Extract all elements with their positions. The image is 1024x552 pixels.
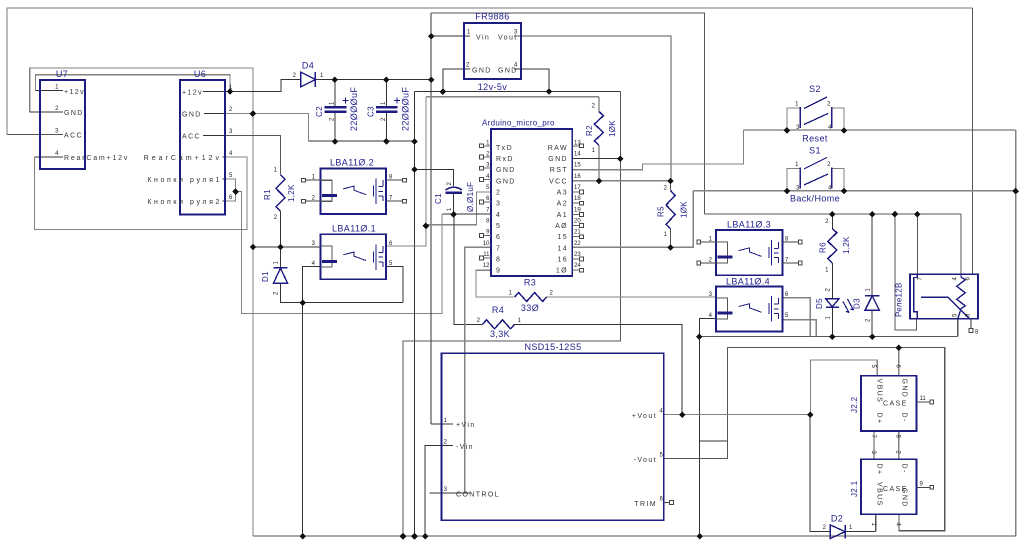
wire C1-R4 vertical [454, 214, 483, 324]
svg-text:Vout: Vout [498, 35, 518, 42]
wire U7 pin1 stub [36, 90, 63, 92]
svg-text:33Ø: 33Ø [521, 303, 539, 313]
svg-text:12: 12 [483, 263, 490, 269]
wire R4 right to +Vout [515, 324, 683, 414]
wire NSD CONTROL stub [429, 492, 470, 494]
junction R5 top on VCC line [667, 178, 674, 185]
svg-text:19: 19 [574, 207, 581, 213]
wire GND right vertical [403, 91, 620, 536]
svg-text:J2.2: J2.2 [850, 396, 859, 413]
resistor R3 [515, 293, 547, 302]
wire arduino pin14(22) to S1 [572, 191, 693, 248]
terminal square J2.1 CASE [917, 486, 930, 488]
svg-text:+Vin: +Vin [456, 422, 476, 429]
led D5 [826, 299, 839, 308]
svg-text:1,2K: 1,2K [842, 236, 851, 254]
svg-text:CASE: CASE [883, 486, 908, 493]
svg-text:3: 3 [496, 201, 501, 208]
junction relay wrap wire on feed line [892, 211, 899, 218]
svg-text:14: 14 [574, 152, 581, 158]
wire R5 top lead [670, 181, 672, 191]
junction LBA110.4 pin4 vertical on GND336 line [696, 334, 703, 341]
wire R3 to LBA110.4 pin3 [547, 296, 716, 298]
junction FR9886 pin4 on GND bus [546, 88, 553, 95]
svg-text:VCC: VCC [549, 178, 568, 185]
wire ACC top bus [7, 8, 973, 134]
svg-text:C3: C3 [367, 106, 376, 117]
svg-text:R2: R2 [585, 125, 594, 136]
svg-text:GND: GND [64, 110, 84, 117]
svg-text:D+: D+ [876, 464, 883, 476]
wire Reset line [743, 129, 1015, 131]
svg-text:A2: A2 [557, 201, 568, 208]
wire +5 to J2.2 VBUS [810, 360, 877, 415]
svg-text:LBA11Ø.3: LBA11Ø.3 [727, 220, 771, 230]
wire arduino pin7 wire [442, 213, 491, 215]
junction R5 bottom on pin22 wire [667, 244, 674, 251]
svg-text:D-: D- [901, 464, 908, 474]
wire LBA110.1 pin5 wire [386, 266, 403, 302]
wire J2.1 VBUS stub [875, 514, 877, 531]
junction C3 top [383, 77, 390, 84]
svg-text:2: 2 [496, 190, 501, 197]
svg-text:23: 23 [574, 252, 581, 258]
wire J2.2 GND stub [898, 348, 900, 376]
svg-text:A3: A3 [557, 190, 568, 197]
wire caps ground rail [308, 140, 414, 142]
wire +5 down to D2 [810, 415, 830, 532]
wire relay bottom pin5 drop [957, 319, 959, 337]
stubs lba110.3 [701, 242, 799, 263]
wire U6 pin5-6 bracket [225, 179, 236, 201]
svg-text:15: 15 [557, 234, 568, 241]
svg-text:ACC: ACC [182, 134, 201, 141]
wire NSD -Vout loop [664, 348, 945, 531]
svg-text:14: 14 [557, 245, 568, 252]
svg-text:Кнопки руля1: Кнопки руля1 [147, 177, 222, 184]
junction D5 bottom on GND336 line [829, 334, 836, 341]
svg-text:4: 4 [496, 212, 501, 219]
junction C2 bottom on rail [332, 138, 339, 145]
resistor R1 [276, 175, 285, 212]
svg-text:CASE: CASE [883, 401, 908, 408]
wire +12 top bus [431, 13, 704, 214]
junction C1 top / GND vertical [411, 166, 418, 173]
svg-text:22ØØØuF: 22ØØØuF [349, 87, 359, 131]
wire LBA110.4 pin4 to bottom rail [700, 319, 716, 536]
terminal squares LBA110.2 [302, 178, 306, 182]
usb J2.1 [861, 459, 917, 514]
svg-text:Реле12В: Реле12В [895, 282, 904, 317]
wire R6 top lead [831, 214, 833, 229]
junction relay armature wire on feed line [914, 211, 921, 218]
svg-text:S1: S1 [809, 146, 821, 156]
svg-text:C1: C1 [434, 193, 443, 204]
svg-text:Arduino_micro_pro: Arduino_micro_pro [482, 119, 555, 128]
diode D4 [301, 72, 316, 87]
svg-text:A1: A1 [557, 212, 568, 219]
optocoupler LBA110.3 [716, 230, 783, 275]
junction FR9886 pin2 on GND bus [440, 88, 447, 95]
regulator FR9886 [464, 23, 521, 79]
svg-text:15: 15 [574, 163, 581, 169]
wire FR9886 GND bus [415, 90, 621, 92]
svg-text:ACC: ACC [64, 132, 83, 139]
svg-text:6: 6 [496, 234, 501, 241]
svg-text:LBA11Ø.2: LBA11Ø.2 [330, 158, 374, 168]
wire GND main vertical left [252, 113, 254, 536]
svg-text:D1: D1 [261, 271, 270, 282]
diode D2 [830, 525, 845, 539]
stubs lba110.2 [305, 180, 402, 201]
wire NSD +Vout line [664, 414, 810, 416]
svg-text:-Vout: -Vout [634, 457, 657, 464]
wire ACC to U7 pin3 [7, 133, 63, 135]
wire C2 bottom lead [334, 112, 336, 142]
svg-text:TxD: TxD [496, 145, 513, 152]
svg-text:VBUS: VBUS [876, 379, 883, 404]
junction caps rail / GND vertical [411, 138, 418, 145]
svg-text:16: 16 [557, 257, 568, 264]
svg-text:1ØK: 1ØK [680, 201, 689, 218]
wire NSD +Vin stub [431, 423, 453, 425]
junction J2.2 GND pin6 on -Vout loop [896, 345, 903, 352]
wire BackHome line [693, 190, 1015, 192]
junction R2 bottom on VCC line [596, 178, 603, 185]
junction LBA110.1 pin4 vertical on bottom rail [299, 533, 306, 540]
svg-text:18: 18 [574, 196, 581, 202]
junction NSD -Vin on bottom rail [422, 533, 429, 540]
svg-text:Reset: Reset [802, 134, 828, 144]
svg-text:AØ: AØ [555, 223, 568, 230]
wire U6 pin2 GND to caps rail [225, 113, 308, 141]
svg-text:D2: D2 [831, 514, 843, 524]
svg-text:3,3K: 3,3K [490, 329, 510, 339]
svg-text:8: 8 [496, 257, 501, 264]
junction S1 pin3 on BackHome line [784, 188, 791, 195]
relay Rele12V [910, 274, 978, 319]
svg-text:RxD: RxD [496, 156, 514, 163]
junction C3 bottom on rail [383, 138, 390, 145]
capacitor C3 [376, 106, 398, 108]
junction R1 bottom / D1 / LBA110.1 pin3 [277, 244, 284, 251]
wire FR9886 Vout to VCC [514, 36, 671, 181]
wire D4 cathode rail [315, 79, 431, 81]
svg-text:24: 24 [574, 263, 581, 269]
svg-text:-Vin: -Vin [456, 444, 474, 451]
wire U6 pin3 ACC to R1 [225, 136, 281, 175]
junction D3 bottom on GND336 line [869, 334, 876, 341]
svg-text:U7: U7 [56, 69, 68, 79]
junction D1 cathode line / LBA110.1 pin4 vertical [299, 299, 306, 306]
TERMINAL SQUARES AND STUBS [302, 178, 973, 504]
optocoupler LBA110.1 [321, 234, 387, 279]
svg-text:D4: D4 [302, 61, 314, 71]
wire +12 vertical to FR9886 Vin and NSD +Vin [430, 13, 432, 424]
wire RearCam net U7 to U6 [35, 157, 248, 230]
svg-text:GND: GND [182, 112, 202, 119]
resistor R4 [483, 320, 515, 329]
wire FR9886 pin1 stub [431, 35, 470, 37]
junction GND vertical / LBA110.1 pin3 wire [250, 244, 257, 251]
wire U6 pin1 to D4 anode [225, 80, 301, 92]
wire pin5 pullup net horizontal [426, 96, 599, 98]
svg-text:J2.1: J2.1 [850, 480, 859, 497]
junction S2 pin4 on Reset line [841, 127, 848, 134]
svg-text:R3: R3 [524, 278, 536, 288]
wire arduino RST to S2 Reset [572, 130, 743, 170]
wire arduino pin10 to NSD CONTROL [465, 247, 492, 492]
resistor R6 [828, 229, 837, 264]
wire C3 bottom lead [385, 112, 387, 142]
wire arduino pin5 connection [426, 192, 491, 225]
junction LBA110.4 pin4 net on bottom rail [696, 533, 703, 540]
svg-text:20: 20 [574, 219, 581, 225]
junction U6 pin1 / U7 pin1 riser [227, 88, 234, 95]
wire C1 top to GND [415, 169, 454, 186]
svg-text:D-: D- [901, 413, 908, 423]
svg-text:VBUS: VBUS [876, 482, 883, 507]
junction D4 cathode rail / +12 vertical [428, 77, 435, 84]
svg-text:CONTROL: CONTROL [456, 491, 500, 498]
svg-text:RAW: RAW [548, 145, 568, 152]
wire bridge pin4net to -Vout net [700, 440, 728, 442]
resistor R2 [594, 112, 603, 146]
connector U7 [40, 80, 85, 169]
junction U6 pin5-6 bracket [232, 188, 239, 195]
svg-text:R1: R1 [263, 189, 272, 200]
svg-text:GND: GND [901, 379, 908, 399]
wire LBA110.4 pin6 wire [783, 298, 811, 337]
svg-text:22: 22 [574, 241, 581, 247]
wire bottom GND rail [253, 535, 1016, 537]
svg-text:7: 7 [496, 245, 501, 252]
junction C2 top [332, 77, 339, 84]
wire U7 pin4 stub [35, 156, 63, 158]
wire ACC-net right drop to relay coil [972, 8, 974, 274]
svg-text:11: 11 [920, 396, 927, 402]
junction S2 pin3 on Reset line [784, 127, 791, 134]
terminal square J2.2 CASE [917, 401, 930, 403]
svg-text:11: 11 [483, 252, 490, 258]
svg-text:RearCam+12v: RearCam+12v [144, 155, 222, 162]
svg-text:Vin: Vin [476, 35, 490, 42]
wire D1 cathode to pin5 line [281, 283, 404, 302]
wire right edge vertical [1015, 130, 1017, 536]
wire D2 cathode to J2.1 VBUS [845, 531, 876, 533]
wire relay armature top drop [916, 214, 918, 274]
svg-text:10: 10 [483, 241, 490, 247]
wire J2 D- link [898, 431, 900, 459]
wire pin5 net vertical [386, 97, 426, 246]
svg-text:16: 16 [574, 174, 581, 180]
wire R2 bottom lead [598, 145, 600, 181]
wire U6 pin lines inside box [203, 91, 225, 201]
svg-text:RearCam+12v: RearCam+12v [64, 155, 129, 162]
wire D3 bottom lead [871, 310, 873, 336]
svg-text:D5: D5 [815, 298, 824, 309]
terminal square TRIM [664, 502, 670, 504]
svg-text:FR9886: FR9886 [475, 12, 509, 22]
junction arduino pin5 net vertical [423, 223, 430, 230]
diode D3 [865, 296, 879, 311]
svg-text:GND: GND [548, 156, 568, 163]
svg-text:13: 13 [574, 140, 581, 146]
wire LBA110.1 pin3 wire [253, 246, 321, 248]
terminal square relay pin8 [969, 329, 973, 333]
svg-text:LBA11Ø.1: LBA11Ø.1 [332, 224, 376, 234]
wire relay coil A drop [960, 214, 962, 274]
arduino U1 Arduino_micro_pro [491, 129, 572, 276]
junction GND drop on bottom rail [400, 533, 407, 540]
wire arduino GND pin14 [572, 158, 620, 160]
wire R2 top lead [598, 97, 600, 112]
junction S1 pin4 on BackHome line [841, 188, 848, 195]
wire FR9886 pin2 GND drop [443, 69, 470, 91]
svg-text:9: 9 [496, 268, 501, 275]
connector U6 [180, 80, 225, 215]
svg-text:LBA11Ø.4: LBA11Ø.4 [726, 277, 770, 287]
wire J2 D+ link [873, 431, 875, 459]
svg-text:TRIM: TRIM [634, 501, 657, 508]
svg-text:NSD15-12S5: NSD15-12S5 [524, 342, 581, 352]
WIRES-RIGHT [253, 130, 1016, 536]
wire C2 top lead [334, 80, 336, 108]
junction C1 bottom / arduino pin7 wire [450, 211, 457, 218]
svg-text:21: 21 [574, 230, 581, 236]
junction R4 drop on +Vout line [679, 412, 686, 419]
wire arduino VCC line [572, 180, 670, 182]
junction arduino GND pin14 / GND vertical [617, 156, 624, 163]
svg-text:Кнопки руля2: Кнопки руля2 [147, 199, 222, 206]
svg-text:1Ø: 1Ø [556, 268, 568, 275]
dcdc NSD15-12S5 [441, 353, 663, 520]
svg-text:22ØØØuF: 22ØØØuF [401, 87, 411, 131]
switch S1 [787, 168, 844, 190]
wire LBA110.1 pin4 vertical [303, 266, 321, 536]
svg-text:GND: GND [496, 178, 516, 185]
wire U7 pin2 stub [30, 111, 63, 113]
svg-text:Ø.Ø1uF: Ø.Ø1uF [466, 182, 475, 212]
wire C3 top lead [385, 80, 387, 108]
wire U7 pin1 to U6 pin1 [36, 75, 230, 92]
wire R1 bottom to D1 [280, 211, 282, 267]
junction D3 top on relay feed line [869, 211, 876, 218]
svg-text:+12v: +12v [182, 90, 203, 97]
svg-text:R4: R4 [492, 305, 504, 315]
svg-text:D+: D+ [876, 413, 883, 425]
diode D1 [274, 268, 288, 283]
terminal squares LBA110.3 [697, 240, 701, 244]
wire arduino pin12 to R3 [476, 270, 514, 297]
wire LBA110.4 pin5 wire [783, 320, 817, 337]
svg-text:5: 5 [496, 223, 501, 230]
wire C1 bottom lead [453, 193, 455, 214]
svg-text:12v-5v: 12v-5v [478, 82, 508, 92]
wire R5 bottom lead [670, 229, 672, 247]
wire relay bottom-left wrap [895, 214, 917, 330]
svg-text:R5: R5 [657, 206, 666, 217]
wire D3 top lead [871, 214, 873, 296]
svg-text:R6: R6 [819, 242, 828, 253]
capacitor C1 [446, 187, 462, 190]
junction FR9886 Vin / +12 net [428, 33, 435, 40]
svg-text:17: 17 [574, 185, 581, 191]
wire D5 bottom lead [831, 308, 833, 337]
junction U6 pin2 GND [250, 110, 257, 117]
svg-text:RST: RST [550, 167, 568, 174]
usb J2.2 [861, 376, 917, 431]
wire steering buttons net to arduino pin7 net [236, 191, 443, 313]
ARDUINO PIN STUBS [480, 144, 584, 272]
wire GND vertical mid [414, 91, 416, 536]
wire U7 pin2 GND riser [30, 68, 253, 114]
svg-text:Back/Home: Back/Home [790, 194, 840, 204]
svg-text:GND: GND [496, 167, 516, 174]
junction R6 top on relay feed line [829, 211, 836, 218]
switch S2 [787, 108, 844, 130]
junction GND mid vertical on bottom rail [411, 533, 418, 540]
svg-text:U6: U6 [194, 69, 206, 79]
svg-text:D3: D3 [853, 298, 862, 309]
svg-text:S2: S2 [809, 84, 821, 94]
svg-text:C2: C2 [315, 106, 324, 117]
wire NSD -Vin to rail [425, 446, 453, 536]
junction VBUS riser / D2 branch on +Vout line [807, 412, 814, 419]
optocoupler LBA110.2 [321, 169, 387, 215]
wire R6 to D5 [831, 263, 833, 299]
optocoupler LBA110.4 [716, 287, 783, 332]
svg-text:GND: GND [472, 68, 492, 75]
wire GND336 line [699, 336, 958, 338]
wire relay feed line [705, 213, 961, 215]
svg-text:+12v: +12v [64, 89, 85, 96]
capacitor C2 [325, 106, 347, 108]
wire FR9886 pin4 GND drop [514, 69, 549, 91]
svg-text:+Vout: +Vout [632, 413, 657, 420]
resistor R5 [666, 191, 675, 229]
junction BackHome line / right vertical [1012, 188, 1019, 195]
svg-text:1ØK: 1ØK [608, 120, 617, 137]
svg-text:1,2K: 1,2K [287, 184, 296, 202]
